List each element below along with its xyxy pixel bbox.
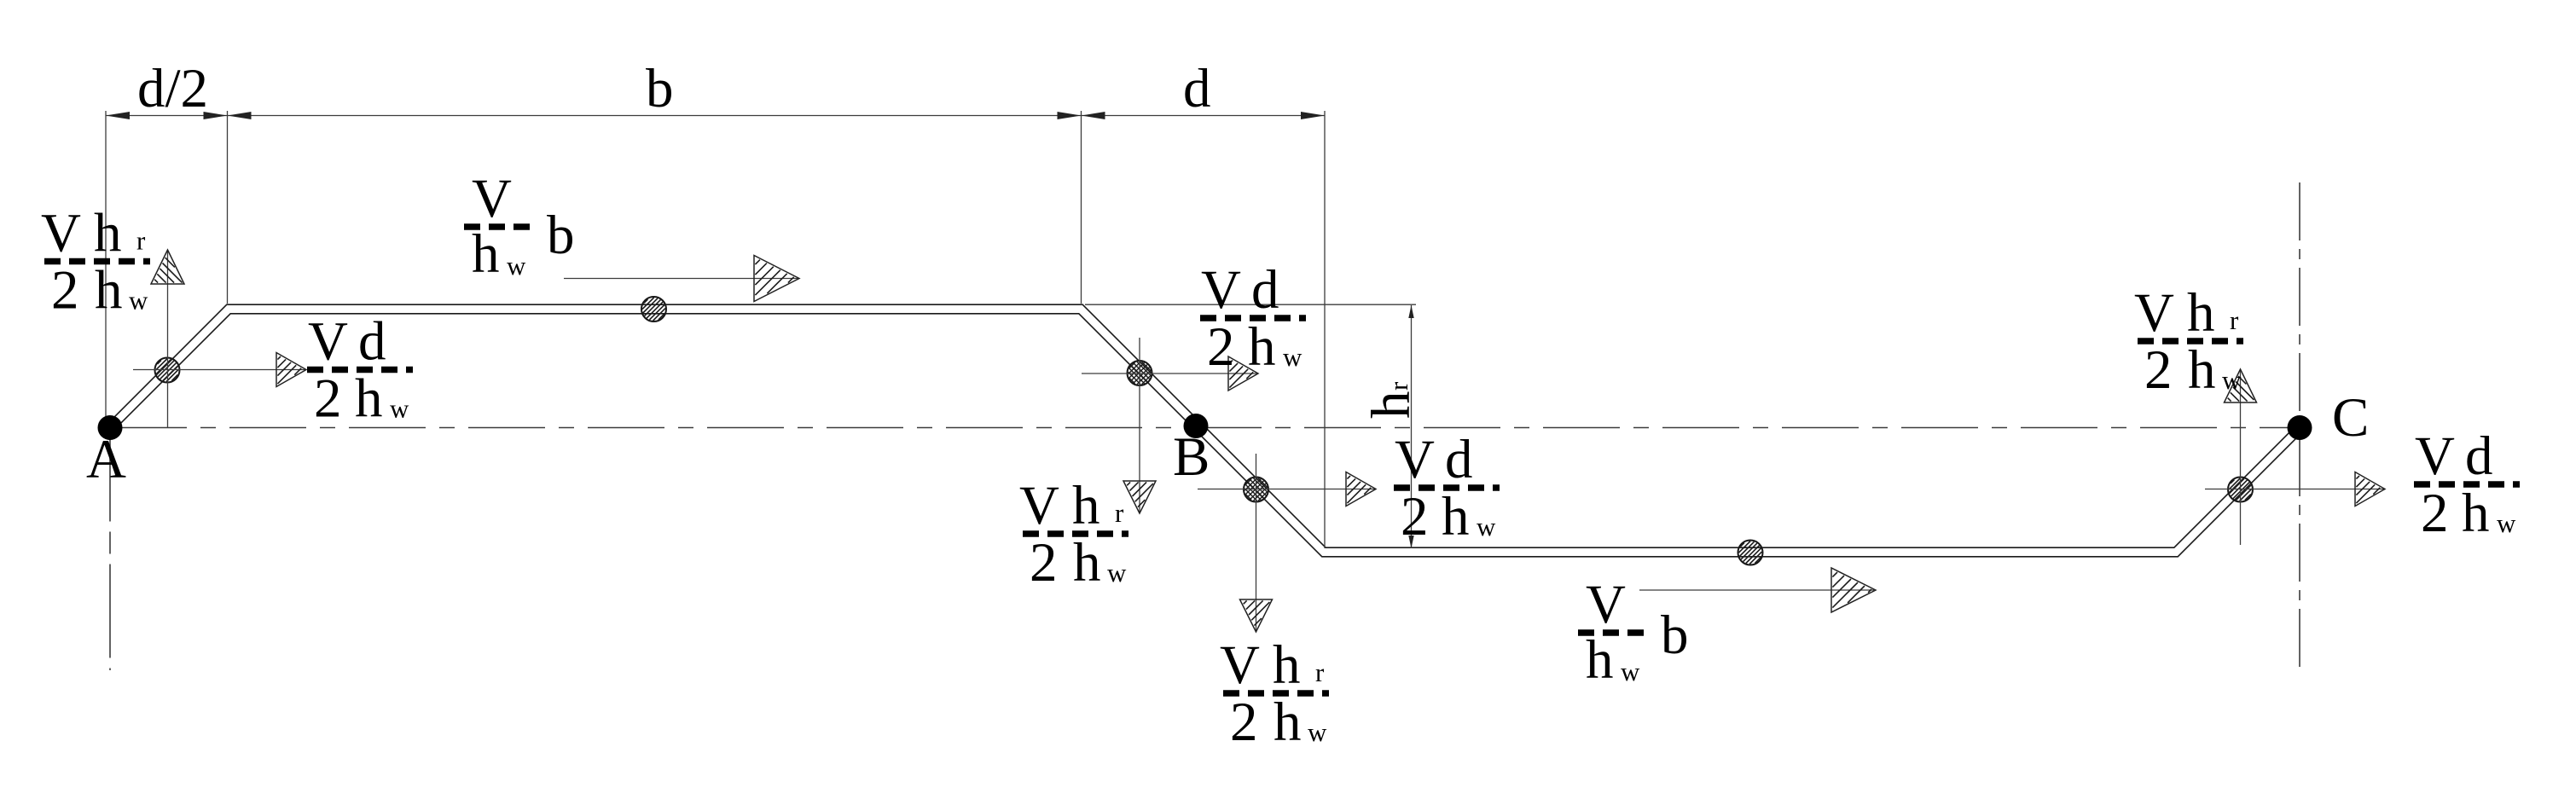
node A (98, 415, 123, 440)
svg-text:w: w (1621, 657, 1640, 686)
svg-text:d: d (2465, 426, 2493, 487)
svg-text:r: r (2230, 305, 2239, 335)
label V / h_w b lower chord (1578, 574, 1689, 691)
svg-text:V: V (1019, 475, 1059, 536)
svg-text:V: V (2134, 282, 2174, 344)
S3 right arrowhead (1228, 356, 1258, 391)
svg-text:b: b (646, 58, 674, 119)
svg-text:d: d (358, 311, 386, 373)
dimension arrows d/2 (106, 112, 228, 119)
svg-text:h: h (1248, 316, 1276, 378)
svg-text:2: 2 (1230, 692, 1258, 753)
svg-text:r: r (1315, 657, 1325, 687)
svg-text:h: h (472, 223, 500, 285)
label V h_r / 2 h_w at S4 (1220, 634, 1329, 753)
section circle S1 on A-diagonal (155, 358, 180, 383)
lower chord shear flow arrowhead (1831, 568, 1876, 612)
svg-text:w: w (507, 251, 526, 281)
svg-text:2: 2 (1401, 486, 1429, 547)
S3 vertical arrow line down (1139, 338, 1140, 512)
svg-text:h: h (1072, 475, 1100, 536)
dimension line top (d/2, b, d) (106, 115, 1325, 117)
svg-text:h: h (94, 203, 122, 264)
label h_r rotated (1361, 381, 1422, 419)
S6 vertical arrow line up (2240, 370, 2242, 545)
svg-text:r: r (1115, 498, 1124, 528)
section circle S3 on B-diagonal upper (1128, 361, 1152, 385)
svg-text:w: w (1107, 558, 1127, 588)
top chord shear flow arrow line (564, 278, 798, 280)
svg-text:V: V (472, 168, 512, 229)
dimension line h_r vertical (1411, 305, 1413, 548)
S1 horizontal arrow line right (133, 369, 305, 371)
lower chord shear flow arrow line (1639, 589, 1874, 591)
svg-text:2: 2 (314, 368, 342, 430)
svg-text:b: b (547, 205, 575, 266)
node C (2288, 415, 2312, 440)
svg-text:w: w (1283, 342, 1303, 372)
section circle S5 on lower chord (1738, 541, 1763, 565)
vertical dash-dot centerline at C (2299, 182, 2300, 673)
svg-text:V: V (1220, 634, 1260, 696)
svg-text:b: b (1661, 605, 1689, 666)
svg-text:w: w (2497, 508, 2516, 538)
svg-text:h: h (1361, 391, 1422, 420)
label V h_r / 2 h_w at S1 (41, 203, 150, 321)
S3 horizontal arrow line (1082, 373, 1257, 374)
svg-text:d: d (1251, 259, 1279, 321)
svg-text:h: h (1586, 629, 1614, 691)
svg-text:d: d (1445, 429, 1473, 490)
folded plate profile upper line A-B-C (107, 304, 2297, 547)
horizontal dash-dot centerline through A B C (110, 427, 2300, 429)
svg-text:V: V (2415, 426, 2455, 487)
S1 right arrowhead (276, 353, 306, 387)
section circle S4 on B-diagonal lower (1244, 478, 1268, 502)
svg-text:w: w (390, 394, 409, 424)
svg-text:V: V (308, 311, 348, 373)
svg-text:h: h (355, 368, 383, 430)
label V h_r / 2 h_w at S3 (1019, 475, 1128, 593)
label V d / 2 h_w at S4 (1394, 429, 1500, 547)
svg-text:2: 2 (51, 260, 79, 321)
svg-text:d/2: d/2 (137, 58, 208, 119)
svg-text:d: d (1183, 58, 1211, 119)
label V d / 2 h_w at S6 (2414, 426, 2520, 544)
label V d / 2 h_w at S1 (307, 311, 413, 430)
svg-text:h: h (95, 260, 123, 321)
dimension arrows d (1082, 112, 1326, 119)
vertical dash-dot centerline below A (109, 428, 111, 671)
svg-text:r: r (1384, 381, 1413, 391)
extension line at A x=124 (105, 111, 107, 420)
extension line at bend3 x=1553 (1324, 111, 1326, 548)
S6 up arrowhead (2225, 369, 2257, 402)
svg-text:V: V (1586, 574, 1626, 635)
svg-text:V: V (1395, 429, 1435, 490)
top chord shear flow arrowhead (754, 256, 799, 302)
svg-text:2: 2 (1207, 316, 1235, 378)
svg-text:h: h (1073, 532, 1101, 593)
S4 vertical arrow line down (1256, 454, 1257, 631)
S6 right arrowhead (2355, 472, 2385, 507)
svg-text:A: A (86, 429, 126, 490)
label V h_r / 2 h_w at S6 (2134, 282, 2243, 401)
section circle S2 on top chord (641, 297, 666, 321)
S4 right arrowhead (1346, 472, 1376, 507)
svg-text:r: r (136, 226, 146, 256)
S6 horizontal arrow line (2205, 489, 2384, 490)
S1 up arrowhead (151, 250, 184, 284)
dimension arrows b (228, 112, 1082, 119)
svg-text:h: h (2188, 339, 2216, 401)
svg-text:w: w (129, 286, 148, 316)
svg-text:w: w (1308, 717, 1327, 747)
S3 down arrowhead (1123, 481, 1156, 513)
svg-text:B: B (1173, 426, 1210, 488)
extension line at bend2 x=1267.5 (1081, 111, 1082, 304)
svg-text:h: h (1442, 486, 1470, 547)
svg-text:2: 2 (2421, 483, 2449, 544)
S4 horizontal arrow line (1198, 489, 1375, 490)
svg-text:h: h (2187, 282, 2215, 344)
svg-text:w: w (1477, 512, 1496, 541)
svg-text:2: 2 (2144, 339, 2173, 401)
node B (1184, 414, 1209, 438)
svg-text:h: h (2462, 483, 2490, 544)
svg-text:w: w (2222, 365, 2242, 395)
section circle S6 on C-diagonal (2228, 478, 2253, 502)
svg-text:h: h (1273, 634, 1301, 696)
folded plate profile lower line A-B-C (113, 314, 2304, 557)
svg-text:C: C (2332, 387, 2369, 449)
label V / h_w b top chord (464, 168, 575, 285)
svg-text:h: h (1273, 692, 1302, 753)
S1 vertical arrow line up (167, 251, 169, 428)
svg-text:2: 2 (1030, 532, 1058, 593)
extension line for h_r at y=357.2 (1085, 304, 1416, 305)
svg-text:V: V (1201, 259, 1241, 321)
svg-text:V: V (41, 203, 81, 264)
S4 down arrowhead (1240, 599, 1273, 632)
label V d / 2 h_w at S3 (1200, 259, 1306, 378)
extension line at bend1 x=266.5 (227, 111, 229, 304)
